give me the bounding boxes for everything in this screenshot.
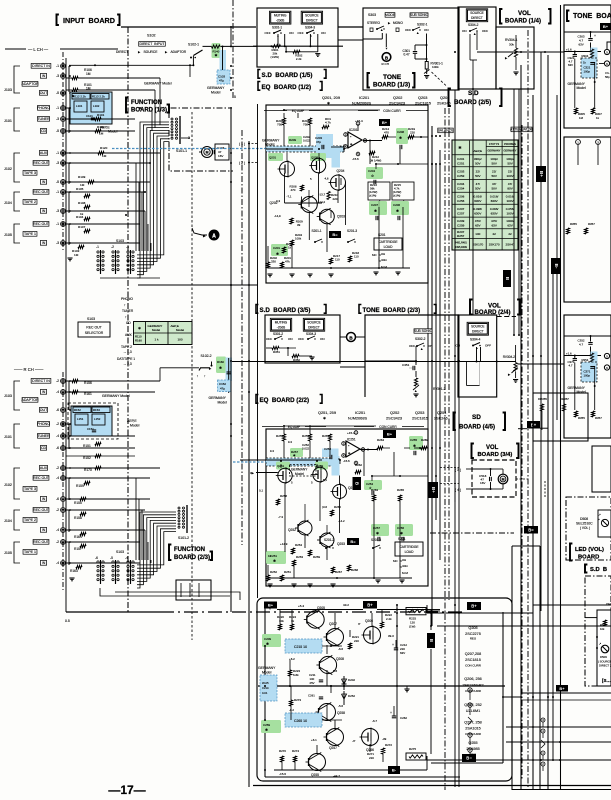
- svg-text:R253: R253: [296, 555, 303, 559]
- resistor R140 highlight: [212, 43, 221, 58]
- transistor Q208: [319, 656, 336, 673]
- svg-text:-20dB: -20dB: [277, 325, 285, 329]
- svg-text:R160: R160: [217, 360, 224, 364]
- svg-text:R163: R163: [70, 569, 78, 573]
- svg-text:C256: C256: [457, 199, 465, 203]
- svg-text:REC OUT: REC OUT: [33, 540, 50, 544]
- svg-text:DR357: DR357: [560, 397, 569, 401]
- svg-text:S303: S303: [368, 13, 376, 17]
- svg-text:56k: 56k: [370, 187, 375, 191]
- svg-text:-3: -3: [56, 209, 59, 213]
- svg-text:B-: B-: [554, 264, 559, 269]
- svg-text:→ 1,3: → 1,3: [123, 350, 132, 354]
- svg-text:0.016/: 0.016/: [474, 194, 483, 198]
- jack loop verticals x69 R: [68, 478, 70, 500]
- tone board right lower box: [564, 315, 611, 438]
- wire R REC OUT row3: [66, 541, 140, 543]
- svg-text:REC OUT: REC OUT: [33, 508, 50, 512]
- main center rail y686: [258, 685, 505, 687]
- dash vertical x522: [521, 125, 523, 780]
- misc junction dots: [230, 65, 232, 67]
- S304-4 switch drops: [476, 347, 478, 362]
- svg-text:C204: C204: [457, 182, 465, 186]
- svg-text:▲: ▲: [420, 347, 423, 351]
- resistor R157: [80, 544, 86, 547]
- svg-text:R157: R157: [74, 547, 82, 551]
- svg-text:S201-4: S201-4: [371, 538, 381, 542]
- svg-text:R109: R109: [78, 175, 86, 179]
- svg-text:MUTING: MUTING: [274, 14, 287, 18]
- svg-text:UZL6M1: UZL6M1: [466, 709, 480, 713]
- svg-text:0.022: 0.022: [302, 447, 310, 451]
- SD board 5/5 dash box: [585, 576, 611, 686]
- svg-text:-6: -6: [56, 497, 59, 501]
- vertical bus x257.5: [257, 104, 259, 598]
- source direct box 3/5: [303, 318, 324, 331]
- svg-text:4.7k: 4.7k: [325, 121, 331, 125]
- svg-text:D202: D202: [348, 678, 355, 682]
- germany model box EQ2: [290, 465, 317, 477]
- svg-text:2.2k: 2.2k: [296, 57, 302, 61]
- svg-text:100: 100: [177, 338, 182, 342]
- svg-text:— L CH —: — L CH —: [28, 47, 49, 52]
- svg-text:▲: ▲: [380, 28, 383, 32]
- wire R TAPE2 IN row: [66, 529, 145, 531]
- svg-text:R491,R481: R491,R481: [455, 242, 468, 245]
- jack boundary dash line R: [62, 372, 64, 592]
- svg-text:AEP,E: AEP,E: [474, 149, 483, 153]
- svg-text:B+: B+: [387, 432, 393, 437]
- power board vertical x431: [430, 610, 432, 630]
- svg-text:ADAPTOR: ADAPTOR: [21, 398, 39, 402]
- svg-text:56p: 56p: [605, 75, 610, 79]
- svg-text:R113 2.2k: R113 2.2k: [92, 95, 105, 99]
- jack box CD (R) y448: [40, 446, 46, 451]
- svg-text:Q251, 259: Q251, 259: [318, 411, 336, 415]
- capacitor C106: [215, 144, 229, 160]
- dr box right mid: [533, 393, 588, 441]
- svg-text:AUX: AUX: [125, 333, 133, 337]
- svg-text:D508: D508: [580, 517, 588, 521]
- svg-text:SOURCE: SOURCE: [307, 321, 320, 325]
- svg-text:R273: R273: [294, 698, 301, 702]
- vol34 left wire: [454, 469, 456, 502]
- svg-text:TONE BOA: TONE BOA: [573, 13, 611, 20]
- svg-text:+: +: [392, 643, 394, 647]
- svg-text:▲: ▲: [473, 32, 476, 36]
- jack box ADAPTOR (L) y84: [22, 82, 38, 87]
- svg-text:▲: ▲: [416, 31, 419, 35]
- power label B+ EQ2: [383, 430, 396, 438]
- svg-text:-2: -2: [56, 466, 59, 470]
- svg-text:+: +: [390, 711, 392, 715]
- svg-text:1000/: 1000/: [506, 219, 514, 223]
- svg-text:B+: B+: [559, 686, 565, 691]
- svg-text:C261: C261: [308, 694, 315, 698]
- svg-text:CON CURR: CON CURR: [383, 109, 401, 113]
- cyan filter block L (L101 L102 C101): [70, 92, 112, 124]
- svg-text:+14.9: +14.9: [280, 542, 288, 546]
- vertical bus x440: [439, 150, 441, 560]
- svg-text:Model: Model: [218, 401, 228, 405]
- svg-text:I?: I?: [358, 622, 361, 626]
- svg-text:IC251: IC251: [355, 411, 365, 415]
- tone right lower main wire: [564, 355, 601, 357]
- tone board (1/3) box: [363, 8, 459, 90]
- svg-text:Q208: Q208: [336, 657, 344, 661]
- svg-text:B+: B+: [531, 422, 537, 427]
- svg-text:FUNCTION: FUNCTION: [131, 100, 162, 106]
- svg-text:TUNER: TUNER: [37, 117, 50, 121]
- svg-text:R304: R304: [582, 54, 589, 58]
- svg-text:C152: C152: [219, 382, 226, 386]
- jack box TAPE 1 (L) y234: [23, 232, 37, 237]
- svg-text:Model: Model: [577, 86, 587, 90]
- svg-text:-14.2: -14.2: [338, 519, 345, 523]
- svg-text:-6.6: -6.6: [338, 647, 343, 651]
- capacitor C103 highlight: [220, 50, 227, 84]
- svg-text:↑: ↑: [204, 374, 206, 378]
- svg-text:R270: R270: [279, 749, 286, 753]
- svg-text:BOARD (4/5): BOARD (4/5): [459, 425, 495, 431]
- svg-text:C259: C259: [457, 224, 465, 228]
- resistor R156: [72, 379, 78, 382]
- svg-text:B+: B+: [268, 603, 274, 608]
- FET Q259 EQ2: [313, 467, 327, 481]
- svg-text:—17—: —17—: [108, 783, 145, 797]
- svg-text:-3: -3: [56, 241, 59, 245]
- jack box REC OUT (L) y192: [33, 190, 49, 195]
- svg-text:-3: -3: [56, 161, 59, 165]
- svg-text:1k: 1k: [288, 246, 292, 250]
- svg-text:0.022: 0.022: [303, 139, 311, 143]
- svg-text:STEREO: STEREO: [367, 21, 380, 25]
- resistor R160 highlight: [216, 357, 226, 374]
- mode node B circle: [382, 53, 391, 62]
- svg-text:S304-3: S304-3: [305, 25, 315, 29]
- vertical bus x432: [431, 126, 433, 626]
- svg-text:43.2: 43.2: [343, 603, 349, 607]
- resistor R108: [84, 205, 90, 208]
- svg-text:J104: J104: [4, 201, 12, 205]
- svg-text:DIRECT: DIRECT: [308, 325, 320, 329]
- svg-text:S302-1: S302-1: [417, 23, 428, 27]
- svg-text:-6: -6: [95, 556, 98, 560]
- svg-text:-1: -1: [96, 245, 99, 249]
- svg-text:-3: -3: [126, 245, 129, 249]
- svg-text:M: M: [502, 478, 505, 482]
- transistor Q255: [309, 754, 326, 771]
- vertical bus x521: [520, 65, 522, 790]
- power bottom rail: [274, 769, 388, 771]
- sub sonic switch box: [410, 13, 428, 17]
- cyan input band EQ2: [266, 458, 338, 466]
- svg-text:(±1%): (±1%): [393, 194, 400, 198]
- svg-text:-I?: -I?: [352, 739, 356, 743]
- svg-text:6.8k: 6.8k: [293, 673, 299, 677]
- svg-text:C351: C351: [402, 363, 410, 367]
- svg-text:S304-4: S304-4: [470, 338, 481, 342]
- transistor Q251 highlight: [276, 462, 290, 470]
- svg-text:J104: J104: [4, 519, 12, 523]
- right power box outline: [512, 545, 540, 547]
- svg-text:C259: C259: [263, 723, 270, 727]
- right EQ top pins: [576, 140, 581, 145]
- svg-text:BOARD (2/3): BOARD (2/3): [174, 555, 210, 561]
- wire REC OUT row2: [66, 191, 145, 193]
- wire R REC OUT row1: [66, 477, 150, 479]
- svg-text:TAPE 3: TAPE 3: [24, 487, 36, 491]
- svg-text:220: 220: [369, 756, 374, 760]
- function board (1/3) dash outline: [169, 108, 232, 118]
- svg-text:✱: ✱: [413, 444, 416, 448]
- svg-text:2SK246: 2SK246: [434, 417, 448, 421]
- power label B+ left: [264, 602, 277, 609]
- svg-text:C207: C207: [371, 203, 378, 207]
- svg-text:S304-2: S304-2: [468, 23, 479, 27]
- parts table green: [452, 140, 518, 250]
- svg-text:1k: 1k: [291, 619, 295, 623]
- jack box CD (L) y131: [40, 129, 46, 134]
- svg-text:(3.8: (3.8: [322, 505, 327, 509]
- svg-text:IN: IN: [42, 561, 46, 565]
- wire R AUX row: [66, 467, 160, 469]
- svg-text:9.3: 9.3: [270, 449, 274, 453]
- svg-text:S.D BOARD (1/5): S.D BOARD (1/5): [262, 72, 313, 79]
- svg-text:GERMANY: GERMANY: [504, 149, 517, 153]
- svg-text:630V: 630V: [491, 199, 499, 203]
- svg-text:( 3 ): ( 3 ): [455, 468, 461, 472]
- svg-text:MC: MC: [372, 253, 378, 257]
- svg-text:SEL2510C: SEL2510C: [576, 522, 593, 526]
- dash-dot horizontal y533: [430, 532, 514, 534]
- svg-text:Q207,208: Q207,208: [465, 652, 481, 656]
- svg-text:R159: R159: [76, 484, 84, 488]
- svg-text:✱: ✱: [266, 642, 269, 646]
- svg-text:Q257, 258: Q257, 258: [464, 721, 482, 725]
- power label B+ bottom right: [556, 685, 568, 692]
- svg-text:✱: ✱: [396, 209, 399, 213]
- power label B+ tone right: [600, 23, 611, 30]
- capacitor C208 highlight green: [396, 128, 408, 144]
- long verticals x514 x519 vol chain: [513, 89, 515, 335]
- grounds EQ2 bottom: [267, 583, 272, 585]
- transistor Q207: [327, 629, 344, 646]
- svg-text:Q255: Q255: [311, 773, 319, 777]
- svg-text:AUX: AUX: [40, 466, 48, 470]
- svg-text:J102: J102: [4, 483, 12, 487]
- power label B+ sd45: [527, 421, 540, 429]
- svg-text:S304-3: S304-3: [306, 332, 316, 336]
- jack box TAPE 2 (L) y202: [23, 200, 37, 205]
- wire S103 R out: [100, 588, 230, 596]
- svg-text:Model: Model: [108, 130, 118, 134]
- right bus junction dots: [520, 696, 522, 698]
- cyan input band EQ1: [266, 146, 344, 152]
- wire REC OUT row3: [66, 223, 140, 225]
- svg-text:(1/2W): (1/2W): [393, 190, 401, 194]
- svg-text:0.096/: 0.096/: [474, 207, 483, 211]
- resistor R103: [78, 245, 84, 248]
- svg-text:R258: R258: [280, 494, 287, 498]
- svg-text:C209: C209: [457, 219, 465, 223]
- jack box REC OUT (R) y542: [33, 540, 49, 545]
- svg-text:↑: ↑: [197, 374, 199, 378]
- svg-text:R209: R209: [289, 138, 296, 142]
- svg-text:R265: R265: [397, 488, 404, 492]
- svg-text:-5: -5: [56, 129, 59, 133]
- resistor R351: [272, 346, 279, 349]
- svg-text:CARTRIDGE: CARTRIDGE: [399, 545, 419, 549]
- wire bundle L function: [137, 122, 169, 278]
- svg-text:Q202: Q202: [393, 96, 402, 100]
- svg-text:S301-1: S301-1: [272, 25, 282, 29]
- svg-text:(1W): (1W): [409, 625, 415, 629]
- svg-text:LOAD: LOAD: [384, 245, 394, 249]
- svg-text:R269: R269: [421, 438, 428, 442]
- svg-text:C208: C208: [397, 130, 404, 134]
- bottom right bus horizontals: [533, 604, 611, 606]
- svg-text:47/: 47/: [508, 182, 512, 186]
- svg-text:-15.6: -15.6: [352, 157, 359, 161]
- resistor R304 cyan block: [591, 48, 598, 61]
- svg-text:220: 220: [333, 197, 338, 201]
- jack box IN (R) y392: [40, 390, 46, 395]
- wires EQ2 extra: [339, 459, 341, 464]
- svg-text:R275: R275: [409, 747, 416, 751]
- svg-text:IC201: IC201: [359, 96, 369, 100]
- svg-text:Q205: Q205: [317, 606, 325, 610]
- capacitor C256 highlight green: [395, 524, 413, 536]
- svg-text:ADAPTOR: ADAPTOR: [21, 82, 39, 86]
- svg-text:GERMANY Model: GERMANY Model: [144, 82, 172, 86]
- svg-text:DIRECT ): DIRECT ): [599, 664, 611, 668]
- svg-text:S103: S103: [116, 239, 124, 243]
- tone board right box: [564, 5, 611, 128]
- LED symbol box: [598, 510, 611, 537]
- svg-text:BOARD: BOARD: [578, 555, 599, 561]
- svg-text:470: 470: [291, 188, 296, 192]
- svg-text:Q207: Q207: [329, 622, 337, 626]
- wire CD row: [66, 130, 135, 132]
- svg-text:220: 220: [354, 639, 359, 643]
- dash-dot vertical x242: [241, 130, 243, 545]
- svg-text:W-05: W-05: [262, 681, 269, 685]
- svg-text:-1: -1: [56, 151, 59, 155]
- svg-text:-6.2: -6.2: [289, 708, 294, 712]
- source direct box S304-2: [458, 7, 496, 89]
- svg-text:NJM2068S: NJM2068S: [348, 417, 367, 421]
- power label B- EQ1: [329, 231, 341, 238]
- svg-text:✱: ✱: [273, 559, 276, 563]
- jack boundary dash line L: [62, 52, 64, 252]
- long vertical x473 between source-direct boxes: [472, 89, 474, 315]
- svg-text:S201-3: S201-3: [347, 229, 357, 233]
- svg-text:63V: 63V: [491, 224, 497, 228]
- svg-text:0,1: 0,1: [259, 489, 263, 493]
- wire bundle R function: [137, 512, 176, 588]
- svg-text:50V: 50V: [491, 161, 497, 165]
- svg-text:▲: ▲: [414, 389, 417, 393]
- jack box DIRECT IN (R) y381: [31, 379, 51, 384]
- svg-text:R101: R101: [97, 113, 105, 117]
- svg-text:B+: B+: [471, 604, 477, 609]
- resistor R102: [95, 129, 101, 132]
- svg-text:6: 6: [606, 366, 608, 370]
- svg-text:2: 2: [469, 748, 471, 752]
- source direct switch box (1/5): [301, 11, 322, 24]
- jack box TUNER (L) y119: [37, 117, 49, 122]
- svg-text:▼: ▼: [385, 47, 388, 51]
- svg-text:R259: R259: [313, 555, 320, 559]
- svg-text:-4: -4: [56, 561, 59, 565]
- svg-text:1 k: 1 k: [154, 338, 159, 342]
- wire S102-2 to R direct in: [159, 368, 161, 381]
- jack box IN (R) y530: [40, 528, 46, 533]
- resistor R170: [95, 466, 101, 469]
- power right rail x427: [426, 605, 428, 613]
- svg-text:R274: R274: [292, 749, 299, 753]
- svg-text:110: 110: [335, 258, 340, 262]
- svg-text:S102-2: S102-2: [201, 354, 212, 358]
- dash vertical x528: [527, 30, 529, 790]
- svg-text:R155: R155: [74, 501, 82, 505]
- svg-text:470/: 470/: [491, 219, 497, 223]
- svg-text:C215 10: C215 10: [294, 645, 307, 649]
- resistor R209 highlight green: [288, 136, 302, 144]
- svg-text:VOL: VOL: [518, 10, 531, 17]
- power label B+ mid: [363, 601, 377, 609]
- svg-text:C206: C206: [393, 203, 400, 207]
- svg-text:1M: 1M: [74, 253, 79, 257]
- resistor R155: [80, 497, 86, 500]
- svg-text:✱: ✱: [458, 145, 462, 150]
- potentiometer RV301-2: [414, 378, 417, 386]
- svg-text:R158: R158: [74, 516, 82, 520]
- svg-text:C265 10: C265 10: [294, 719, 307, 723]
- svg-text:TAPE 2: TAPE 2: [24, 200, 36, 204]
- vertical bus x553: [552, 270, 554, 760]
- svg-text:PHONO: PHONO: [37, 422, 50, 426]
- S.D board (3/5) box: [265, 315, 340, 363]
- svg-text:-13,7: -13,7: [319, 193, 326, 197]
- svg-text:C201: C201: [457, 157, 465, 161]
- op-amp IC201: [348, 132, 362, 148]
- svg-text:R212: R212: [372, 155, 379, 159]
- svg-text:-5: -5: [56, 180, 59, 184]
- fuse resistor R225 120 1W: [406, 608, 426, 615]
- svg-text:D506: D506: [600, 655, 607, 659]
- svg-text:LOAD: LOAD: [405, 550, 415, 554]
- svg-text:REC OUT: REC OUT: [33, 190, 50, 194]
- jack box OUT (R) y410: [39, 408, 47, 413]
- svg-text:Q253: Q253: [415, 411, 424, 415]
- svg-text:Q203: Q203: [337, 215, 345, 219]
- svg-text:CD: CD: [41, 446, 47, 450]
- svg-text:47k: 47k: [285, 260, 290, 264]
- svg-text:-15.6: -15.6: [279, 772, 286, 776]
- jack box IN (R) y563: [40, 561, 46, 566]
- svg-text:J101: J101: [4, 435, 12, 439]
- svg-text:ON: ON: [320, 337, 325, 341]
- top area extra dots: [230, 26, 232, 28]
- wire R DIRECT IN row: [66, 380, 160, 382]
- dash wire vol34 right: [516, 478, 528, 480]
- svg-text:—— R CH ——: —— R CH ——: [14, 367, 44, 372]
- svg-text:S301-2: S301-2: [273, 332, 283, 336]
- vertical bus x231: [230, 107, 232, 612]
- svg-text:-5.6: -5.6: [338, 704, 343, 708]
